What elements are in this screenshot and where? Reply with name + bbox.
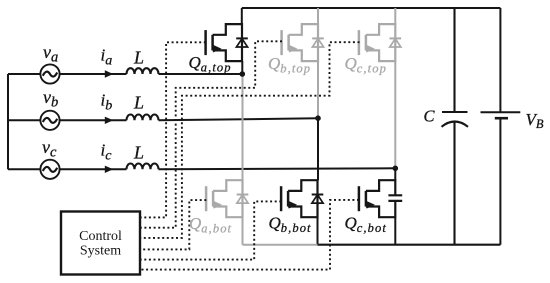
svg-text:VB: VB [526, 110, 544, 131]
svg-text:L: L [133, 143, 144, 163]
svg-text:L: L [133, 48, 144, 68]
svg-text:va: va [43, 42, 58, 66]
svg-text:Control: Control [79, 229, 122, 244]
svg-text:C: C [424, 107, 436, 126]
svg-text:System: System [80, 244, 121, 259]
svg-text:L: L [133, 93, 144, 113]
svg-text:vc: vc [42, 137, 57, 161]
svg-text:Qc,top: Qc,top [345, 54, 387, 76]
svg-text:vb: vb [43, 87, 58, 111]
svg-text:ic: ic [101, 140, 113, 163]
svg-text:Qb,top: Qb,top [268, 54, 311, 76]
svg-text:ia: ia [101, 45, 113, 68]
svg-text:ib: ib [101, 90, 113, 113]
